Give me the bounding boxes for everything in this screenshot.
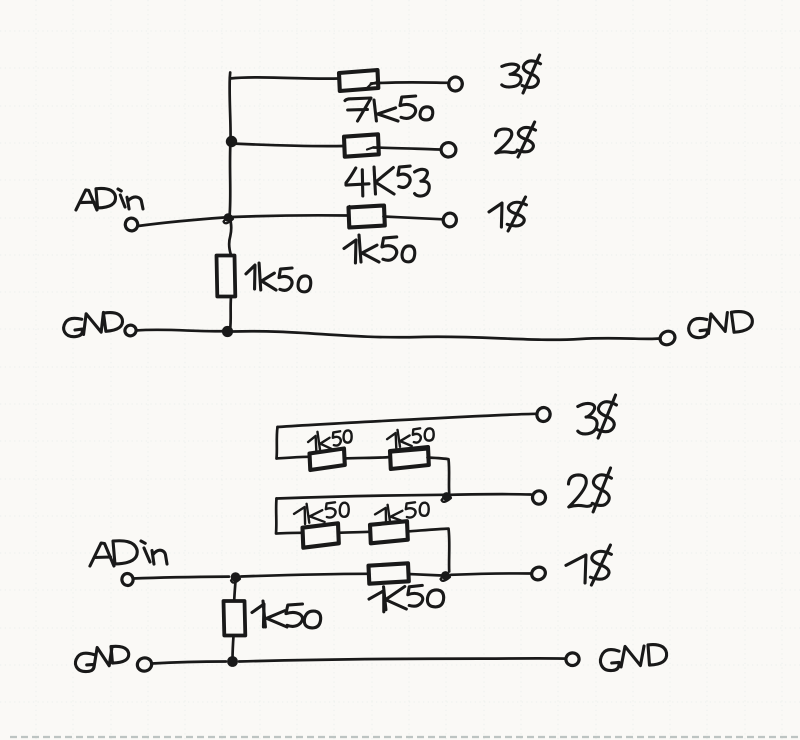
wire ladder-1 mid bbox=[344, 457, 390, 459]
node label 3S bottom bbox=[578, 395, 617, 438]
terminal 3S bbox=[447, 75, 464, 92]
label 1k50 ladder-1b bbox=[386, 427, 434, 448]
resistor 1k50 ladder-2a bbox=[303, 523, 339, 547]
terminal GND bottom right bbox=[565, 652, 580, 667]
label GND bottom left bbox=[75, 646, 128, 671]
terminal 1S bottom bbox=[530, 565, 548, 582]
wire ADin lead bottom bbox=[133, 577, 229, 579]
resistor 1k50 shunt bbox=[217, 256, 236, 297]
wire 1S branch right bbox=[384, 217, 444, 220]
resistor 1k50 ladder-2b bbox=[370, 521, 408, 543]
wire bus mid segment bbox=[230, 141, 231, 217]
wire 2S branch right bbox=[374, 148, 442, 150]
label 1k50 ladder-2a bbox=[294, 502, 350, 525]
node label 1S bottom bbox=[566, 545, 611, 585]
wire ground rail bottom bbox=[239, 658, 566, 661]
junction dot ADin bottom bbox=[231, 572, 241, 582]
resistor 4K53 bbox=[344, 134, 379, 156]
junction dot ground bbox=[222, 326, 233, 337]
wire ground left bbox=[136, 330, 226, 332]
wire 1S branch left bbox=[232, 215, 348, 217]
terminal ADin bbox=[124, 217, 138, 232]
wire 1S line right bbox=[408, 573, 531, 575]
wire shunt to ground bbox=[230, 297, 231, 330]
wire 2S branch left bbox=[232, 144, 345, 147]
resistor 1K50 bottom bbox=[369, 563, 409, 583]
label 1k50 (shunt) bbox=[246, 263, 311, 292]
wire shunt to ground bottom bbox=[233, 636, 234, 659]
wire ADin to shunt bottom bbox=[234, 581, 235, 601]
wire ADin lead bbox=[138, 218, 224, 227]
resistor 1k50 top bbox=[349, 206, 385, 228]
resistor 1k50 ladder-1a bbox=[310, 449, 345, 471]
label GND right bbox=[688, 311, 753, 338]
wire ground left bottom bbox=[152, 662, 226, 664]
junction knot node 2S bottom bbox=[442, 492, 452, 502]
label 1k50 shunt bottom bbox=[252, 601, 321, 628]
label ADin bottom bbox=[90, 541, 167, 566]
wire ground rail bbox=[233, 331, 660, 340]
resistor 7k50 bbox=[339, 70, 378, 91]
node label 2S bottom bbox=[568, 468, 611, 512]
wire 1S line left bbox=[241, 574, 367, 577]
label GND left bbox=[63, 311, 123, 337]
resistor 1k50 ladder-1b bbox=[390, 447, 429, 469]
terminal ADin bottom bbox=[121, 573, 134, 587]
label 1k50 ladder-1a bbox=[307, 429, 352, 451]
terminal GND left bbox=[124, 324, 138, 337]
wire 3S output bbox=[278, 414, 537, 427]
terminal 3S bottom bbox=[535, 406, 551, 423]
label GND bottom right bbox=[600, 645, 666, 671]
terminal 1S bbox=[442, 212, 457, 228]
junction dot ground bottom bbox=[227, 656, 238, 667]
label 1k50 ladder-2b bbox=[375, 502, 430, 525]
label 1K50 bottom bbox=[369, 585, 444, 613]
node label 3S bbox=[502, 55, 541, 93]
wire ladder-1 left side bbox=[277, 427, 309, 459]
junction knot node 1S bottom bbox=[441, 571, 451, 581]
wire 3S branch right bbox=[371, 82, 449, 83]
label 7k50 bbox=[345, 96, 433, 121]
node label 1S bbox=[489, 197, 526, 231]
wire ladder-2 mid bbox=[338, 532, 369, 533]
node label 2S bbox=[496, 122, 536, 157]
label 1k50 (1S branch) bbox=[344, 235, 415, 263]
label 4K53 bbox=[346, 166, 429, 196]
resistor 1k50 shunt bottom bbox=[224, 601, 246, 636]
junction dot node 2S-branch bbox=[226, 136, 237, 147]
terminal GND bottom left bbox=[136, 656, 153, 672]
wire ladder-2 right side bbox=[407, 529, 449, 572]
wire ladder-1 right side bbox=[428, 458, 450, 494]
wire bus to shunt resistor bbox=[229, 217, 231, 255]
terminal GND right bbox=[658, 329, 677, 347]
terminal 2S bbox=[440, 141, 457, 158]
wire 2S output bbox=[277, 494, 532, 498]
wire bus top segment bbox=[228, 73, 232, 142]
wire 3S branch left bbox=[230, 77, 339, 78]
wire ladder-2 left side bbox=[276, 499, 301, 534]
junction knot node 1S-branch bbox=[224, 213, 234, 223]
terminal 2S bottom bbox=[531, 490, 546, 505]
label ADin bbox=[76, 188, 143, 210]
